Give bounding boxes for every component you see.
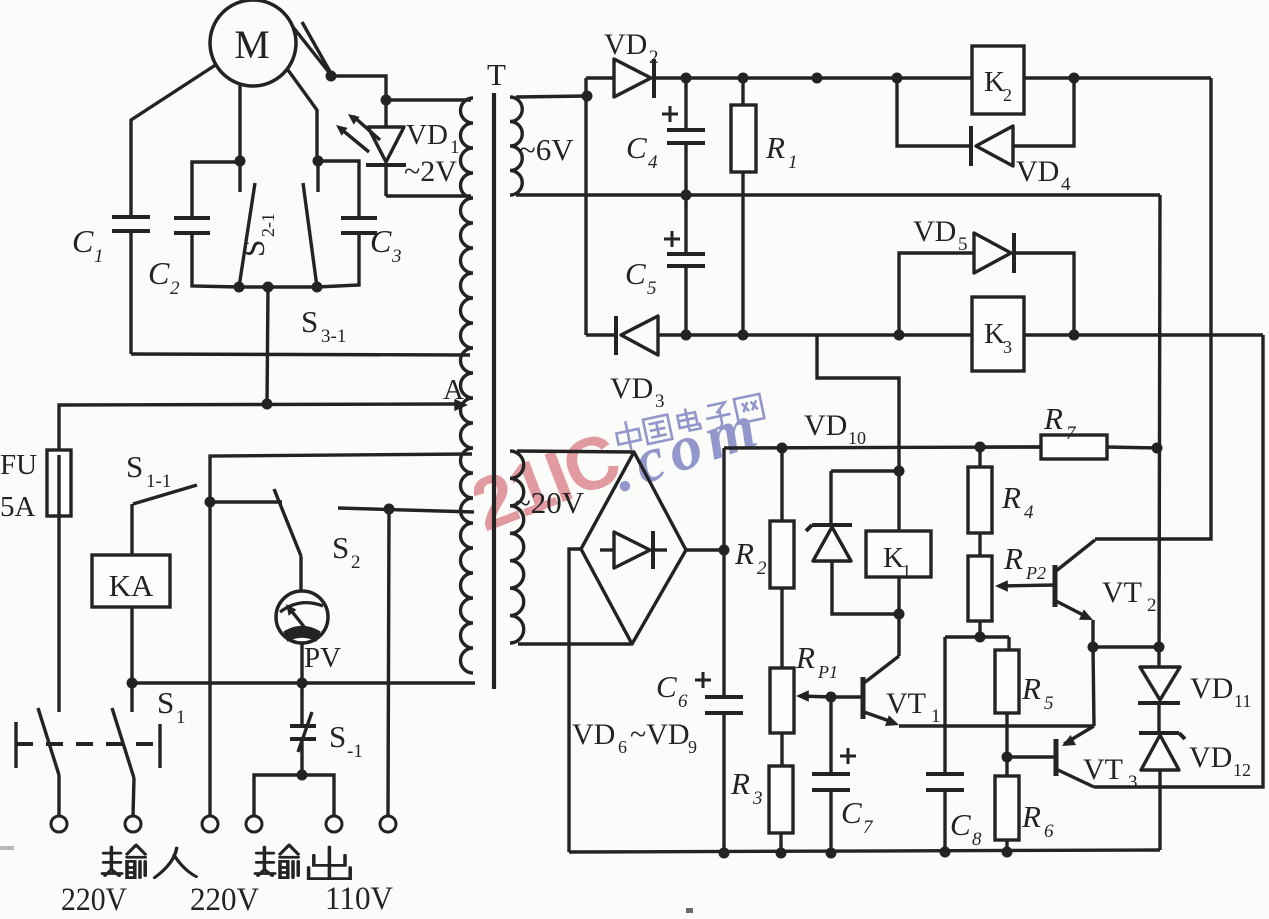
node S3-1 top [313,156,324,167]
wire bottom rail corner [1159,770,1160,850]
svg-text:1: 1 [94,246,104,267]
wire A line [59,399,468,450]
wire K3 row to K1 jog [817,335,899,471]
label VD5 [913,215,968,255]
svg-text:R: R [734,536,754,571]
node R7 right [1152,443,1163,454]
svg-text:5: 5 [958,234,968,255]
switch S2-1 [239,161,255,287]
svg-text:VD: VD [913,215,956,248]
diode VD5 with leads [899,233,1074,335]
svg-text:2: 2 [351,552,361,573]
label shu of output [255,845,298,878]
svg-text:7: 7 [1066,423,1077,444]
label shu of input [102,845,145,878]
svg-text:KA: KA [109,568,154,603]
node VD4 right top [1069,73,1080,84]
node VD11 top [1154,642,1165,653]
wire VD10 rail [724,447,1041,448]
label C4 plus [662,113,678,116]
transistor VT1 [831,656,899,726]
svg-text:6: 6 [618,737,627,757]
capacitor C2 [174,162,240,287]
svg-text:R: R [730,766,750,801]
transistor VT2 [1055,540,1095,647]
svg-text:1: 1 [788,152,798,173]
svg-text:2: 2 [1147,595,1157,616]
capacitor C6 [705,550,743,853]
wire VD1 to winding 2V tap [386,194,471,197]
wire 6V top riser and VD3 column [584,78,587,335]
svg-text:P2: P2 [1025,563,1046,583]
wiper arrow RP1 [796,690,831,701]
node S2 line [384,504,395,515]
svg-text:VD: VD [1189,741,1232,774]
wire left common rail [132,681,475,684]
transformer primary winding [461,98,474,673]
svg-text:VD: VD [804,409,847,442]
wire S2 line [338,508,474,512]
svg-text:S: S [329,719,346,754]
potentiometer RP2 [968,556,992,637]
terminal out 220 a [202,816,218,832]
resistor R7 [980,435,1157,459]
diode VD3 [616,316,658,355]
relay coil K2 [972,46,1024,114]
svg-text:11: 11 [1234,691,1251,711]
wire 20V top [517,451,634,452]
label R3 [730,766,763,809]
wire FU down [57,516,60,712]
diode VD2 [614,59,654,98]
wire VT3 collector to right [1094,335,1263,787]
svg-text:3: 3 [1128,772,1138,793]
label VT3 [1083,753,1138,793]
node K1 bottom [894,609,905,620]
switch above PV [274,489,301,556]
wire K1 to VT1 collector [897,614,900,656]
wire common down to A line [267,287,268,404]
label C4 [626,130,658,173]
wire M left lead to C1 [131,64,217,216]
label VD4 [1016,155,1071,195]
artifact dash left edge [0,846,14,850]
node R3 bottom [776,848,787,859]
potentiometer RP1 [770,668,794,766]
watermark [461,388,771,547]
node 6V top [582,91,593,102]
wire 20V bottom [518,642,631,645]
node VD1 top [381,95,392,106]
svg-text:4: 4 [648,152,658,173]
terminal out 110 a [326,816,342,832]
label C2 [148,255,180,299]
wire 6V bottom rail [516,193,1160,196]
label S1-1 [126,449,171,492]
node S3-1 bottom [312,282,323,293]
node S2-1 top [235,156,246,167]
wire plus riser [722,448,725,550]
zener diode VD10 [806,471,897,614]
svg-text:10: 10 [848,428,866,448]
svg-text:6: 6 [1044,821,1054,842]
svg-text:C: C [370,223,392,259]
wiper arrow RP2 [995,580,1055,591]
wire top rail left [586,76,614,79]
svg-text:K: K [984,66,1005,98]
switch S1 linkage [16,722,160,768]
capacitor C1 [112,217,150,354]
motor M [210,0,296,86]
svg-text:VT: VT [1102,576,1142,609]
resistor R4 [968,447,992,556]
wire VD3 row [658,333,972,336]
svg-text:220V: 220V [190,882,259,918]
wire top rail right [1024,76,1211,79]
diode VD11 [1138,667,1180,733]
terminal out 220 b [246,816,262,832]
svg-text:C: C [148,255,170,291]
wire M right lead [288,70,317,161]
relay coil K1 [866,471,931,614]
wire KA down [130,607,133,683]
svg-text:4: 4 [1061,174,1071,195]
transformer secondary 20V winding [510,451,524,643]
svg-text:2-1: 2-1 [258,213,278,237]
node S1-1 feed [205,497,216,508]
label R7 [1043,401,1077,444]
resistor R1 [731,78,756,335]
svg-text:VD: VD [406,119,448,151]
label VD2 [604,28,659,68]
wire VT2 emitter drop [1093,647,1094,726]
node K3 row left [894,330,905,341]
svg-text:6: 6 [678,691,688,712]
capacitor C5 [667,195,705,335]
label C7 [841,795,874,838]
node VD4 left top [892,73,903,84]
wire C1 bottom to transformer tap [131,354,470,355]
label R2 [734,536,767,579]
node VT3 base [1002,752,1013,763]
svg-text:3: 3 [655,391,665,412]
svg-text:R: R [765,130,785,165]
wire emitter to VD11 [1093,645,1159,648]
node C6 bottom [719,848,730,859]
svg-text:VD: VD [604,28,647,61]
svg-text:3: 3 [1003,337,1012,357]
wire bottom rail [569,850,1160,852]
artifact dot bottom [686,908,693,913]
svg-text:~2V: ~2V [404,155,457,188]
wire top rail [655,76,972,79]
label VT1 [886,687,941,727]
node K3 VD5 right [1069,330,1080,341]
wire K1 zener link top [831,469,899,472]
label chu of output [309,847,351,879]
label S-1 [329,719,363,762]
diode VD4 with leads [897,78,1074,166]
capacitor C7 [812,697,850,853]
svg-text:3: 3 [391,246,402,267]
node C8 bottom [940,847,951,858]
svg-text:2: 2 [170,278,180,299]
svg-text:5: 5 [647,278,657,299]
LED VD1 light arrows [336,114,380,152]
wire bridge minus drop [569,549,581,852]
node C5 bottom [681,330,692,341]
svg-text:3: 3 [752,788,763,809]
node brush junction [326,71,337,82]
svg-text:R: R [1003,541,1023,576]
relay coil K3 [972,297,1024,371]
wire to PV switch contact [210,500,282,503]
wire M bottom lead [238,85,241,161]
bridge rectifier VD6-VD9 [581,452,686,644]
svg-text:1: 1 [176,707,186,728]
capacitor C3 [317,161,377,287]
label VT2 [1102,576,1157,616]
svg-text:12: 12 [1233,760,1251,780]
resistor R2 [770,448,794,668]
svg-text:~VD: ~VD [630,718,690,751]
wire to output terminals [254,775,334,816]
fuse FU [47,450,71,516]
svg-text:~20V: ~20V [514,485,585,520]
svg-text:1: 1 [931,706,941,727]
svg-text:T: T [487,57,506,92]
svg-text:VT: VT [1083,753,1123,786]
switch S1-1 [133,485,197,504]
label C1 [72,223,104,267]
node R2 top [777,443,788,454]
label C5 [625,256,657,299]
svg-text:5A: 5A [0,491,36,523]
svg-text:1: 1 [902,561,911,581]
switch S1 pole 1 [38,708,59,816]
label VD3 [610,372,665,412]
svg-text:C: C [841,795,862,830]
svg-text:R: R [795,640,815,675]
label S1 [157,685,186,728]
transformer secondary 6V winding [510,97,522,195]
svg-text:C: C [72,223,94,259]
svg-text:VD: VD [610,372,653,405]
label C6 plus [695,679,711,682]
svg-text:1-1: 1-1 [146,471,171,492]
svg-text:R: R [1021,671,1041,706]
svg-text:2: 2 [649,47,659,68]
node PV bottom [297,678,308,689]
svg-text:4: 4 [1024,502,1034,523]
terminal input L [51,816,67,832]
node KA bottom [127,678,138,689]
relay coil KA [92,555,170,607]
node bridge plus [719,545,730,556]
node on A line [262,399,273,410]
svg-text:9: 9 [688,737,697,757]
resistor R6 [995,776,1019,852]
wire switch to PV [299,556,302,592]
node C4 top [681,73,692,84]
label R5 [1021,671,1054,714]
label R4 [1001,480,1034,523]
svg-text:R: R [1021,799,1041,834]
wire S1-1 to KA [130,504,133,555]
svg-text:3-1: 3-1 [321,326,346,347]
svg-text:C: C [950,807,971,842]
brush contact at motor [293,22,333,77]
label R6 [1021,799,1054,842]
svg-text:C: C [626,130,647,165]
wire K3 row right [1024,333,1263,336]
svg-text:110V: 110V [325,881,393,917]
wire bridge plus out [686,548,724,551]
label VD1 [406,119,460,158]
svg-text:P1: P1 [817,662,838,682]
svg-text:R: R [1043,401,1063,436]
svg-text:VD: VD [572,718,615,751]
node K2 rail a [812,73,823,84]
node R1 top [738,73,749,84]
transformer core T [492,93,496,689]
svg-text:2: 2 [757,558,767,579]
switch S1 pole 2 [112,708,134,816]
label ru of input [155,848,197,878]
wire RP2 bottom tee [945,637,1009,774]
node VT1 base C7 [826,692,837,703]
wire switch common [239,285,317,288]
node C4 bottom [681,190,692,201]
svg-text:M: M [234,22,270,67]
wire 6V top [516,96,587,97]
wire mid rail drop [1159,195,1160,667]
node R4 top [975,442,986,453]
svg-text:S: S [301,304,318,339]
wire right branch top [1095,78,1211,539]
label S3-1 [301,304,346,347]
svg-text:VD: VD [1016,155,1059,188]
label S2-1 [236,213,278,257]
capacitor C4 [667,78,705,195]
svg-text:S: S [126,449,143,484]
node VT2 emitter [1088,642,1099,653]
wire PV down [300,643,303,683]
resistor R3 [769,766,793,853]
label C8 [950,807,982,850]
voltmeter PV [276,591,328,643]
wire S1-1 feed riser [210,454,472,816]
node S-1 bottom [297,770,308,781]
node switch common [263,282,274,293]
label S2 [332,530,361,573]
label C3 [370,223,402,267]
node K1 top [894,466,905,477]
svg-text:R: R [1001,480,1021,515]
svg-text:8: 8 [972,829,982,850]
wire KA to S1 [130,683,133,712]
svg-text:C: C [625,256,646,291]
svg-text:S: S [157,685,174,720]
zener diode VD12 [1139,733,1185,850]
transistor VT3 [1007,726,1094,787]
wire VD3 row left [586,333,617,336]
svg-text:-1: -1 [347,741,363,762]
switch S3-1 [303,161,318,287]
node RP2 bottom [975,632,986,643]
svg-text:VT: VT [886,687,926,720]
svg-text:5: 5 [1044,693,1054,714]
node S2-1 bottom [234,282,245,293]
svg-text:PV: PV [304,642,341,674]
node C7 bottom [826,848,837,859]
svg-text:S: S [332,530,349,565]
label R1 [765,130,798,173]
svg-text:FU: FU [0,449,37,481]
LED VD1 [366,100,406,196]
label C7 plus [840,755,856,758]
svg-text:2: 2 [1003,85,1012,105]
terminal out 110 b [380,816,396,832]
svg-text:K: K [984,318,1005,350]
label C6 [656,669,688,712]
svg-text:220V: 220V [61,882,127,918]
switch S-1 [290,683,316,775]
wire emitter row [899,724,1094,727]
svg-text:VD: VD [1190,672,1233,705]
terminal input N [125,816,141,832]
node R1 bottom [738,330,749,341]
wire brush to transformer top [331,76,471,100]
svg-text:C: C [656,669,677,704]
capacitor C8 [926,774,964,852]
wire 110V riser [388,509,389,816]
svg-text:K: K [883,542,904,574]
resistor R5 [995,650,1019,776]
label C5 plus [664,238,680,241]
svg-text:7: 7 [863,817,874,838]
svg-text:~6V: ~6V [519,132,574,167]
svg-text:S: S [236,240,271,257]
node R6 bottom [1002,847,1013,858]
